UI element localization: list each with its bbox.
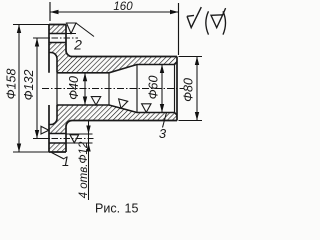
svg-text:4 отв.Ф12: 4 отв.Ф12 — [78, 141, 90, 198]
bolt hole top edges — [49, 34, 66, 43]
dim F60 — [161, 65, 163, 113]
recess bottom edge across bore — [56, 73, 58, 105]
dim 160 — [50, 2, 179, 55]
bolt hole bottom edges — [49, 134, 66, 144]
dim F158 — [13, 25, 49, 153]
fillet bottom — [66, 121, 72, 127]
bore outline — [57, 62, 177, 115]
fillet top — [66, 51, 72, 57]
dim F80 — [179, 57, 203, 121]
section lower material (hatched) — [49, 105, 177, 152]
svg-text:1: 1 — [62, 154, 70, 169]
roughness mark cone — [116, 99, 127, 110]
svg-text:Ф158: Ф158 — [5, 69, 19, 100]
svg-text:Рис.: Рис. — [95, 202, 120, 216]
top-right roughness: check symbol — [187, 7, 201, 27]
bolt hole bottom (white gap) — [48, 134, 66, 144]
svg-text:Ф40: Ф40 — [67, 76, 81, 100]
svg-text:Ф132: Ф132 — [22, 70, 36, 101]
nabla with tail — [211, 8, 226, 27]
roughness mark flange left face — [41, 126, 49, 134]
roughness mark bottom hole — [70, 135, 79, 143]
item 2 leader + label — [76, 23, 94, 37]
roughness mark flange right face — [67, 23, 77, 34]
dim F12 holes — [66, 134, 93, 143]
svg-text:Ф80: Ф80 — [182, 78, 196, 102]
item 3 leader + label — [163, 113, 167, 128]
svg-text:2: 2 — [73, 37, 82, 53]
dim F40 — [84, 73, 86, 105]
svg-text:160: 160 — [113, 1, 133, 13]
svg-text:3: 3 — [159, 126, 167, 141]
svg-text:15: 15 — [125, 202, 139, 216]
top bolt hole axis — [33, 37, 50, 39]
bottom bolt hole axis — [33, 138, 50, 140]
recess profile top — [49, 53, 57, 73]
main axis centerline — [42, 88, 184, 90]
recess profile bottom — [49, 105, 57, 125]
parenthesis left — [206, 11, 209, 34]
parenthesis right — [223, 11, 226, 34]
roughness mark bore F60 — [142, 104, 151, 113]
roughness mark bore F40 — [91, 97, 100, 105]
section upper material (hatched) — [49, 25, 177, 73]
bolt hole top (white gap) — [48, 34, 66, 43]
body outline — [72, 57, 177, 121]
item 1 leader + label — [52, 153, 65, 160]
flange outline — [49, 25, 66, 153]
dim F132 — [36, 38, 38, 139]
bore edge circles (transition lines) — [109, 65, 175, 113]
svg-text:Ф60: Ф60 — [147, 76, 161, 100]
